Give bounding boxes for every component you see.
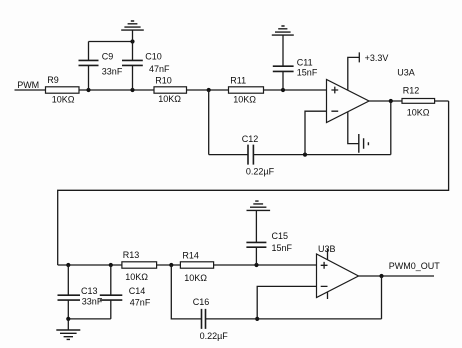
svg-text:33nF: 33nF (102, 66, 123, 76)
svg-text:C13: C13 (81, 286, 98, 296)
capacitor C10 (122, 42, 170, 91)
wire C16 net (171, 265, 381, 319)
svg-text:10KΩ: 10KΩ (52, 94, 75, 104)
op-amp U3A (327, 67, 415, 122)
svg-text:U3A: U3A (397, 67, 415, 77)
node junction dot C9 (86, 88, 90, 92)
capacitor C16 (193, 297, 229, 341)
wire C12 net (209, 154, 391, 156)
svg-text:C12: C12 (242, 134, 259, 144)
wire right rail to second stage (58, 101, 449, 265)
resistor R9 (46, 75, 80, 104)
power stub top U3B (327, 249, 329, 260)
svg-text:33nF: 33nF (82, 296, 103, 306)
power +3.3V pin of U3A (348, 52, 389, 90)
svg-text:C9: C9 (102, 51, 114, 61)
wire feedback right vertical (390, 101, 392, 155)
svg-text:R9: R9 (47, 75, 59, 85)
node PWM label (17, 80, 39, 90)
wire U3A output (369, 100, 449, 102)
svg-text:PWM0_OUT: PWM0_OUT (389, 261, 441, 271)
capacitor C12 (242, 134, 275, 176)
svg-text:10KΩ: 10KΩ (233, 95, 256, 105)
svg-text:PWM: PWM (17, 80, 39, 90)
svg-text:10KΩ: 10KΩ (184, 273, 207, 283)
capacitor C15 (246, 210, 292, 265)
wire to U3A minus input (305, 111, 327, 154)
svg-text:0.22µF: 0.22µF (246, 167, 275, 177)
wire PWM input (15, 89, 46, 91)
power stub bottom U3B (327, 292, 329, 299)
ground above C15 (247, 201, 271, 210)
node junction dot top rail (130, 39, 134, 43)
svg-text:+3.3V: +3.3V (365, 53, 389, 63)
wire R9 to R10 (79, 89, 154, 91)
wire output feedback vertical (381, 276, 383, 319)
wire second stage input (58, 264, 317, 266)
node junction dot R14 feedback (169, 263, 173, 267)
svg-text:C10: C10 (145, 51, 162, 61)
svg-text:10KΩ: 10KΩ (125, 272, 148, 282)
node junction dot C15 (254, 263, 258, 267)
wire feedback left vertical (208, 90, 210, 155)
svg-text:C14: C14 (129, 286, 146, 296)
wire C13 C14 bottom (68, 318, 111, 320)
svg-text:10KΩ: 10KΩ (407, 107, 430, 117)
ground above C9 C10 (121, 21, 144, 42)
svg-text:0.22µF: 0.22µF (200, 331, 229, 341)
svg-text:10KΩ: 10KΩ (158, 94, 181, 104)
resistor R13 (122, 250, 157, 282)
wire R11 to op-amp plus input (264, 89, 327, 91)
svg-text:R12: R12 (403, 85, 420, 95)
wire U3B minus input (257, 286, 316, 319)
node junction dot feedback tap (207, 88, 211, 92)
svg-text:C11: C11 (297, 57, 313, 67)
resistor R12 (402, 85, 435, 117)
svg-text:C15: C15 (272, 231, 289, 241)
svg-text:15nF: 15nF (297, 68, 318, 78)
node junction dot C11 (281, 88, 285, 92)
ground pin of U3A (348, 112, 369, 153)
ground above C11 (272, 26, 294, 35)
svg-text:C16: C16 (193, 297, 210, 307)
wire R10 to R11 (187, 89, 229, 91)
svg-text:15nF: 15nF (272, 243, 293, 253)
resistor R11 (229, 76, 264, 105)
svg-text:U3B: U3B (318, 244, 336, 254)
svg-text:R10: R10 (155, 75, 172, 85)
node junction dot C13 (66, 263, 70, 267)
op-amp U3B (317, 244, 359, 298)
capacitor C11 (273, 35, 318, 90)
svg-text:R14: R14 (182, 250, 199, 260)
svg-text:47nF: 47nF (130, 297, 151, 307)
node junction dot output (379, 274, 383, 278)
node junction dot feedback bottom (255, 317, 259, 321)
resistor R14 (180, 250, 213, 283)
capacitor C9 (79, 42, 123, 91)
capacitor C14 (100, 265, 151, 319)
capacitor C13 (58, 265, 103, 319)
node junction dot ground (66, 317, 70, 321)
wire U3B output (359, 275, 435, 277)
node PWM0_OUT label (389, 261, 441, 271)
node junction dot C10 (130, 88, 134, 92)
wire top rail C9 to C10 (89, 41, 133, 43)
svg-text:47nF: 47nF (149, 64, 170, 74)
node junction dot output feedback (389, 99, 393, 103)
ground below C13 (56, 319, 80, 340)
svg-text:R11: R11 (230, 76, 246, 86)
resistor R10 (154, 75, 187, 104)
svg-text:R13: R13 (123, 250, 140, 260)
node junction dot minus branch (303, 153, 307, 157)
node junction dot C14 (109, 263, 113, 267)
